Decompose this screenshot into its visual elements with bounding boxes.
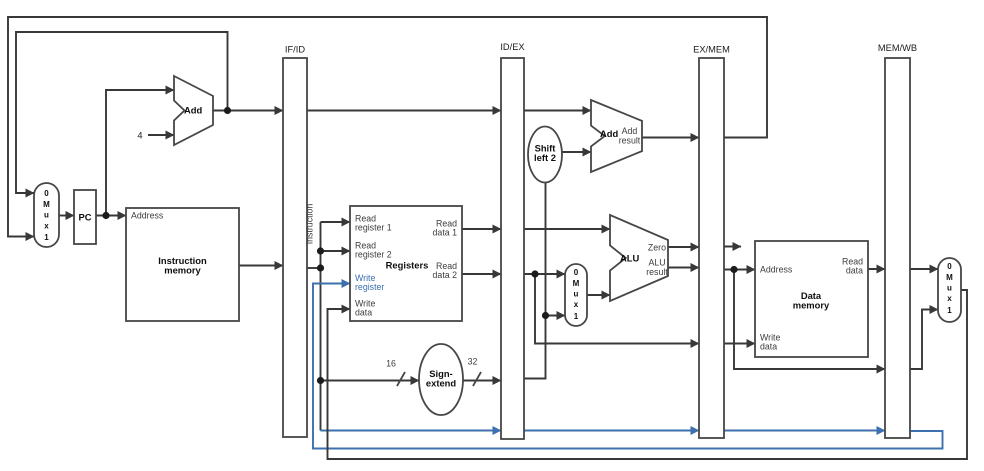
wire EX/MEM to data memory write data	[724, 343, 755, 345]
svg-text:register 1: register 1	[355, 223, 392, 233]
svg-text:data: data	[355, 308, 372, 318]
wire PC+4 loop: Add output up to inner top rail to left mux input 0	[16, 32, 228, 193]
sign-extend unit	[419, 344, 463, 415]
pipeline register MEM/WB	[885, 58, 910, 438]
mux M3 (MemtoReg)	[938, 258, 961, 322]
wire constant 4 into adder input 2	[148, 134, 174, 136]
adder Add (branch target)	[591, 100, 642, 172]
wire branch adder result to EX/MEM	[642, 137, 699, 139]
node junction instruction/sign-extend	[317, 377, 324, 384]
wire instruction tap stub from IF/ID	[307, 267, 321, 269]
svg-text:1: 1	[574, 312, 579, 321]
wire Add output to IF/ID	[213, 110, 283, 112]
node junction immediate/mux	[542, 312, 549, 319]
wire PC output to instruction memory address	[96, 215, 126, 217]
svg-text:x: x	[947, 294, 952, 303]
wire mux M2 output to ALU input 2	[587, 294, 610, 296]
svg-text:register 2: register 2	[355, 250, 392, 260]
wire instruction to sign-extend	[321, 380, 420, 382]
node junction read-data-2	[531, 270, 538, 277]
label mux M3	[946, 262, 953, 315]
op-amp ALU	[610, 215, 668, 301]
wire instruction to read register 2	[321, 250, 351, 252]
wire shift left 2 output to branch adder input 2	[562, 151, 591, 153]
slash 16-bit width mark	[397, 372, 405, 386]
wire PC tap up to adder input 1	[106, 90, 174, 216]
svg-text:data: data	[760, 342, 777, 352]
pipeline register EX/MEM	[699, 58, 724, 438]
wire ALU result to EX/MEM	[668, 267, 699, 269]
wire write-register number into ID/EX (blue)	[321, 430, 502, 432]
wire mux M1 output to PC	[59, 215, 74, 217]
node junction on Add output	[224, 107, 231, 114]
register file Registers	[350, 206, 462, 321]
data memory	[755, 241, 868, 357]
svg-text:memory: memory	[793, 300, 830, 311]
wire instruction to read register 1	[321, 221, 351, 223]
svg-text:u: u	[947, 284, 952, 293]
node junction on PC output	[102, 212, 109, 219]
node junction instruction/read-register-2	[317, 247, 324, 254]
svg-text:x: x	[574, 300, 579, 309]
wire data memory read data to MEM/WB	[868, 268, 885, 270]
label mux M1	[43, 189, 50, 242]
instruction memory	[126, 208, 239, 321]
svg-text:16: 16	[386, 359, 396, 369]
svg-text:1: 1	[44, 233, 49, 242]
svg-text:result: result	[646, 267, 668, 277]
wire MEM/WB read data to mux M3 input 0	[910, 268, 938, 270]
wire instruction memory output to IF/ID	[239, 265, 283, 267]
pipeline register ID/EX	[501, 58, 524, 439]
svg-text:Address: Address	[760, 265, 793, 275]
svg-text:left 2: left 2	[534, 152, 556, 163]
wire ALU result EX/MEM to data memory address	[724, 269, 755, 271]
wire ALU result bypass down to MEM/WB	[734, 270, 885, 370]
pipeline register IF/ID	[283, 58, 307, 437]
svg-text:ID/EX: ID/EX	[500, 42, 524, 52]
wire immediate branch to mux M2 input 1	[546, 315, 566, 317]
svg-text:M: M	[573, 279, 580, 288]
svg-text:memory: memory	[164, 265, 201, 276]
wire immediate from ID/EX up to shift left 2	[524, 183, 546, 379]
svg-text:result: result	[619, 136, 641, 146]
svg-text:IF/ID: IF/ID	[285, 45, 305, 55]
svg-text:u: u	[44, 211, 49, 220]
svg-text:Zero: Zero	[648, 243, 666, 253]
register PC	[74, 190, 96, 244]
svg-text:0: 0	[574, 268, 579, 277]
svg-text:Registers: Registers	[386, 260, 429, 271]
node junction instruction/stub	[317, 264, 324, 271]
adder Add (PC+4)	[174, 76, 213, 145]
svg-text:data 1: data 1	[433, 228, 458, 238]
wire write-register number ID/EX to EX/MEM (blue)	[524, 430, 699, 432]
svg-text:Add: Add	[622, 126, 638, 136]
wire read data 1 to ID/EX	[462, 228, 501, 230]
wire mux M3 output back to registers write data	[328, 290, 968, 459]
svg-text:4: 4	[137, 131, 142, 141]
svg-text:ALU: ALU	[648, 258, 665, 268]
shift left 2 unit	[528, 127, 562, 183]
slash 32-bit width mark	[473, 372, 481, 386]
svg-text:0: 0	[947, 262, 952, 271]
mux M1 (PC source)	[34, 183, 59, 247]
svg-text:M: M	[946, 273, 953, 282]
svg-text:32: 32	[468, 357, 478, 367]
svg-text:Instruction: Instruction	[305, 204, 315, 245]
svg-text:data 2: data 2	[433, 270, 458, 280]
wire read data 2 branch down to EX/MEM write data	[535, 274, 699, 344]
wire sign-extend output to ID/EX	[463, 380, 501, 382]
wire MEM/WB ALU result to mux M3 input 1	[910, 310, 938, 370]
svg-text:EX/MEM: EX/MEM	[693, 45, 730, 55]
svg-text:Address: Address	[131, 211, 164, 221]
svg-text:ALU: ALU	[620, 253, 639, 264]
svg-text:Add: Add	[184, 105, 202, 116]
wire read data 1 ID/EX to ALU input 1	[524, 228, 610, 230]
svg-text:register: register	[355, 282, 384, 292]
mux M2 (ALUSrc)	[565, 264, 587, 326]
node junction ALU-result	[730, 266, 737, 273]
wire write-register return from MEM/WB to registers write register (blue)	[313, 284, 943, 449]
svg-text:MEM/WB: MEM/WB	[878, 43, 917, 53]
svg-text:u: u	[574, 290, 579, 299]
wire read data 2 to ID/EX	[462, 273, 501, 275]
wire PC+4 from ID/EX to branch adder	[524, 110, 591, 112]
wire PC+4 from IF/ID to ID/EX	[307, 110, 501, 112]
svg-text:M: M	[43, 200, 50, 209]
svg-text:x: x	[44, 222, 49, 231]
wire branch-target loop: EX/MEM to top rail to left mux input 1	[8, 17, 767, 237]
svg-text:Add: Add	[600, 128, 618, 139]
svg-text:0: 0	[44, 189, 49, 198]
wire zero stub out of EX/MEM	[724, 246, 741, 248]
label mux M2	[573, 268, 580, 321]
svg-text:1: 1	[947, 306, 952, 315]
wire ALU zero to EX/MEM	[668, 246, 699, 248]
svg-text:extend: extend	[426, 378, 456, 389]
svg-text:PC: PC	[78, 212, 91, 223]
wire read data 2 ID/EX to mux M2 input 0	[524, 273, 565, 275]
wire instruction distribution vertical	[320, 222, 322, 431]
wire write-register number EX/MEM to MEM/WB (blue)	[724, 430, 885, 432]
svg-text:data: data	[846, 266, 863, 276]
